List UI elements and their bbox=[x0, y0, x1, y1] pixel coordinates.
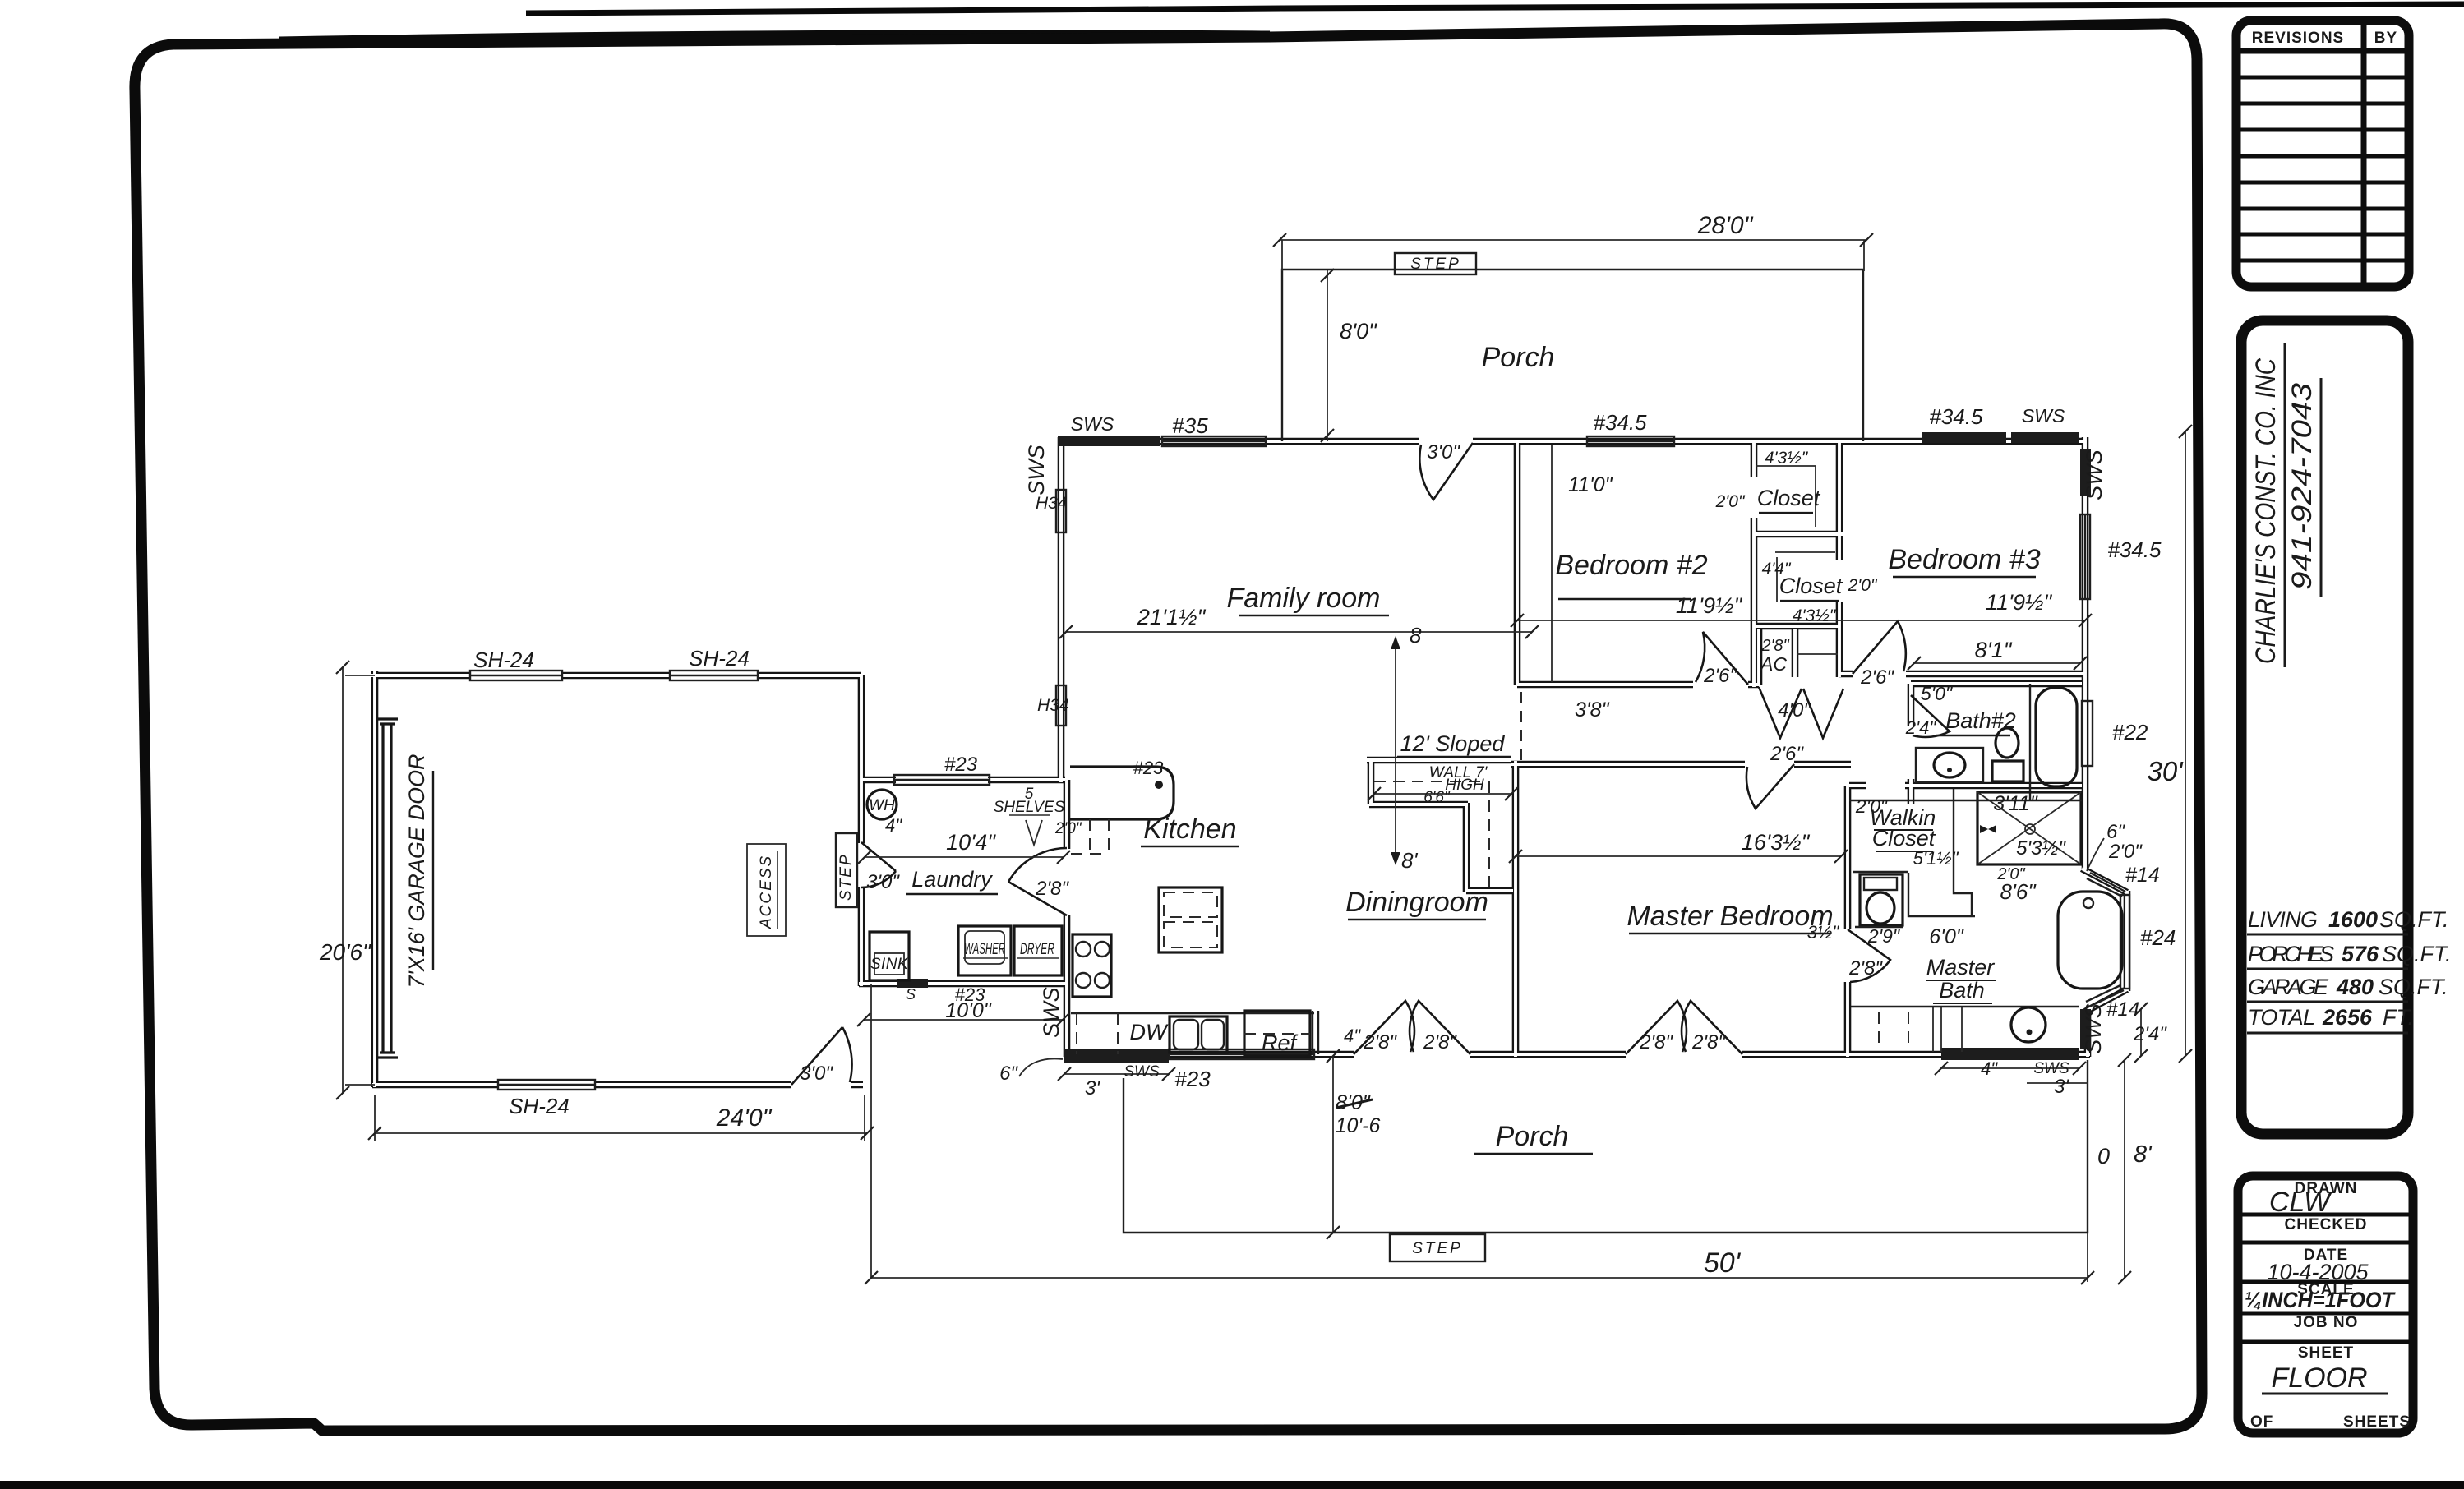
company title block bbox=[2241, 320, 2452, 1134]
svg-text:JOB NO: JOB NO bbox=[2294, 1314, 2359, 1331]
svg-text:Bedroom #2: Bedroom #2 bbox=[1555, 550, 1707, 581]
drawn / sheet block bbox=[2238, 1176, 2413, 1433]
svg-text:6'6": 6'6" bbox=[1423, 789, 1451, 806]
garage access panel box bbox=[747, 844, 786, 936]
svg-text:2'4": 2'4" bbox=[2133, 1023, 2167, 1045]
kitchen upper counter bbox=[1070, 767, 1174, 819]
svg-text:STEP: STEP bbox=[837, 853, 855, 901]
svg-text:11'9½": 11'9½" bbox=[1986, 590, 2053, 615]
door bedroom2 2'6 bbox=[1696, 632, 1748, 685]
svg-text:Diningroom: Diningroom bbox=[1345, 887, 1488, 918]
svg-text:#14: #14 bbox=[2106, 998, 2139, 1021]
svg-text:SHELVES: SHELVES bbox=[994, 799, 1065, 816]
walkin closet interior walls bbox=[1853, 789, 1975, 916]
svg-text:0: 0 bbox=[2097, 1144, 2110, 1169]
svg-text:SWS: SWS bbox=[2022, 405, 2065, 426]
svg-text:SQ.FT.: SQ.FT. bbox=[2379, 907, 2449, 932]
svg-text:#14: #14 bbox=[2125, 864, 2160, 887]
svg-text:Master: Master bbox=[1926, 955, 1996, 980]
svg-text:CHECKED: CHECKED bbox=[2285, 1216, 2368, 1233]
svg-text:4": 4" bbox=[1981, 1058, 1998, 1079]
washer box bbox=[958, 926, 1011, 975]
water heater bbox=[867, 790, 897, 819]
svg-text:#23: #23 bbox=[1133, 758, 1164, 778]
svg-text:2'8": 2'8" bbox=[1848, 957, 1883, 980]
svg-text:SH-24: SH-24 bbox=[509, 1094, 570, 1118]
door garage rear 3'0 bbox=[791, 1027, 852, 1085]
svg-text:2'0": 2'0" bbox=[1054, 820, 1082, 837]
window kitchen south SWS #23 bbox=[1169, 1049, 1314, 1059]
svg-text:Bath#2: Bath#2 bbox=[1945, 708, 2016, 733]
page bottom scan edge bbox=[0, 1481, 2464, 1489]
svg-text:2'8": 2'8" bbox=[1760, 637, 1789, 655]
svg-text:Master Bedroom: Master Bedroom bbox=[1627, 901, 1833, 932]
svg-text:Bath: Bath bbox=[1939, 978, 1985, 1003]
svg-text:5'0": 5'0" bbox=[1921, 683, 1954, 704]
svg-text:10'4": 10'4" bbox=[946, 830, 996, 855]
svg-text:SHEET: SHEET bbox=[2298, 1344, 2354, 1362]
AC bifold doors 4'0 bbox=[1759, 687, 1843, 738]
door bath2 2'4 bbox=[1911, 695, 1950, 737]
kitchen cooktop bbox=[1073, 934, 1111, 997]
svg-text:#34.5: #34.5 bbox=[1929, 404, 1983, 429]
svg-text:2'8": 2'8" bbox=[1691, 1031, 1726, 1053]
svg-text:2'0": 2'0" bbox=[2108, 841, 2143, 863]
svg-text:2'6": 2'6" bbox=[1703, 665, 1737, 687]
svg-text:8'6": 8'6" bbox=[2000, 879, 2037, 904]
svg-text:2'9": 2'9" bbox=[1867, 925, 1901, 947]
window bath2 east #22 bbox=[2082, 701, 2093, 766]
bath2 tub bbox=[2036, 688, 2077, 786]
svg-text:30': 30' bbox=[2147, 756, 2184, 786]
svg-text:20'6": 20'6" bbox=[319, 939, 371, 965]
svg-text:4": 4" bbox=[1344, 1026, 1361, 1046]
svg-text:1600: 1600 bbox=[2328, 907, 2378, 932]
french doors dining porch 2'8+2'8 bbox=[1354, 1001, 1470, 1054]
svg-text:SQ.FT.: SQ.FT. bbox=[2379, 975, 2448, 999]
master garden tub bbox=[2058, 892, 2122, 989]
svg-text:PORCHES: PORCHES bbox=[2248, 942, 2334, 966]
svg-text:480: 480 bbox=[2336, 975, 2374, 999]
svg-text:#34.5: #34.5 bbox=[1593, 410, 1647, 435]
door family to porch 3'0 bbox=[1419, 443, 1473, 500]
svg-text:3'8": 3'8" bbox=[1575, 698, 1610, 721]
page top scan edge bbox=[526, 4, 2464, 13]
svg-text:2656: 2656 bbox=[2322, 1005, 2373, 1030]
dashed hall line bbox=[1520, 692, 1522, 763]
svg-text:SWS: SWS bbox=[2082, 449, 2106, 500]
svg-text:2'0": 2'0" bbox=[1848, 576, 1878, 595]
svg-text:SWS: SWS bbox=[1124, 1063, 1160, 1081]
svg-text:SH-24: SH-24 bbox=[473, 648, 534, 672]
outer drawing frame bbox=[135, 24, 2202, 1431]
svg-text:2'8": 2'8" bbox=[1035, 878, 1069, 900]
svg-text:Bedroom #3: Bedroom #3 bbox=[1888, 544, 2040, 575]
svg-text:SHEETS: SHEETS bbox=[2343, 1413, 2411, 1431]
svg-text:Porch: Porch bbox=[1496, 1121, 1569, 1152]
svg-text:H34: H34 bbox=[1036, 494, 1068, 513]
svg-text:6": 6" bbox=[999, 1063, 1018, 1085]
windows: garage north SH-24 x2 bbox=[470, 436, 2129, 1090]
svg-text:8'0": 8'0" bbox=[1340, 319, 1377, 343]
door master bedroom 2'6 bbox=[1746, 764, 1794, 809]
svg-text:3'0": 3'0" bbox=[800, 1063, 833, 1085]
svg-text:3': 3' bbox=[2054, 1076, 2069, 1098]
svg-text:CHARLIE'S CONST. CO. INC: CHARLIE'S CONST. CO. INC bbox=[2250, 358, 2282, 664]
svg-text:3': 3' bbox=[1085, 1077, 1100, 1099]
svg-text:SWS: SWS bbox=[2033, 1060, 2069, 1077]
window family north #35 bbox=[1162, 436, 1266, 446]
window bedroom2 north #34.5 bbox=[1587, 436, 1674, 446]
svg-text:576: 576 bbox=[2342, 942, 2379, 966]
bath2 toilet bbox=[1996, 728, 2019, 758]
svg-text:SWS: SWS bbox=[1024, 445, 1049, 496]
room labels bbox=[906, 342, 2041, 1154]
svg-text:21'1½": 21'1½" bbox=[1137, 605, 1207, 629]
kitchen island bbox=[1159, 887, 1222, 952]
bottom porch outline bbox=[1124, 1060, 2088, 1233]
svg-text:8: 8 bbox=[1410, 623, 1422, 648]
svg-text:SWS: SWS bbox=[1039, 987, 1064, 1038]
svg-text:6": 6" bbox=[2106, 821, 2125, 843]
dashed peninsula 7ft wall bbox=[1374, 781, 1489, 889]
svg-text:WH: WH bbox=[869, 797, 895, 814]
door laundry east 2'8 bbox=[1008, 848, 1067, 915]
door bedroom3 2'6 bbox=[1853, 621, 1906, 674]
svg-text:HIGH: HIGH bbox=[1445, 777, 1484, 794]
svg-text:12' Sloped: 12' Sloped bbox=[1400, 731, 1506, 756]
svg-text:11'0": 11'0" bbox=[1568, 473, 1613, 496]
svg-text:S: S bbox=[906, 986, 916, 1003]
top porch outline bbox=[1282, 270, 1863, 441]
8'0 strikethrough bbox=[1336, 1099, 1373, 1108]
svg-text:2'0": 2'0" bbox=[1715, 492, 1746, 511]
master toilet nook bbox=[1860, 874, 1903, 925]
bottom porch step box bbox=[1390, 1234, 1485, 1261]
svg-text:SQ.FT.: SQ.FT. bbox=[2382, 942, 2452, 966]
revisions table bbox=[2236, 21, 2409, 287]
window garage south SH-24 bbox=[498, 1080, 595, 1090]
svg-text:SWS: SWS bbox=[1071, 413, 1114, 435]
AC shelf line bbox=[1797, 653, 1838, 655]
svg-text:TOTAL: TOTAL bbox=[2248, 1005, 2315, 1030]
dimension tick slashes bbox=[336, 233, 2192, 1284]
svg-text:Kitchen: Kitchen bbox=[1143, 814, 1236, 845]
garage door (7x16) inner leaf bbox=[376, 719, 398, 1058]
svg-text:#23: #23 bbox=[955, 984, 985, 1005]
svg-text:ACCESS: ACCESS bbox=[758, 855, 775, 929]
bath2 vanity bbox=[1916, 748, 1983, 782]
svg-text:3'0": 3'0" bbox=[1427, 441, 1460, 463]
door laundry west 3'0 bbox=[861, 842, 896, 887]
svg-text:#22: #22 bbox=[2112, 720, 2148, 744]
dimension / annotation text bbox=[319, 212, 2184, 1279]
svg-text:24'0": 24'0" bbox=[716, 1104, 773, 1132]
svg-text:STEP: STEP bbox=[1412, 1240, 1463, 1257]
svg-text:3'0": 3'0" bbox=[866, 871, 900, 893]
windows bay diagonals #14 bbox=[2090, 873, 2125, 892]
svg-text:4'3½": 4'3½" bbox=[1793, 606, 1837, 625]
svg-text:2'6": 2'6" bbox=[1770, 743, 1804, 765]
window laundry north #23 bbox=[894, 775, 990, 785]
french doors master porch 2'8+2'8 bbox=[1626, 1001, 1742, 1054]
kitchen sink double basin bbox=[1170, 1016, 1227, 1053]
svg-text:4'3½": 4'3½" bbox=[1765, 449, 1809, 468]
svg-text:16'3½": 16'3½" bbox=[1742, 830, 1811, 855]
svg-text:Porch: Porch bbox=[1482, 342, 1555, 373]
svg-text:FT.: FT. bbox=[2383, 1005, 2414, 1030]
top porch step box bbox=[1395, 253, 1476, 274]
svg-text:4": 4" bbox=[885, 815, 902, 836]
svg-text:SH-24: SH-24 bbox=[689, 646, 750, 671]
svg-text:SINK: SINK bbox=[870, 956, 909, 973]
svg-text:OF: OF bbox=[2250, 1413, 2273, 1431]
svg-text:Laundry: Laundry bbox=[911, 867, 993, 892]
svg-text:Family room: Family room bbox=[1226, 583, 1380, 614]
hatched wall segments (dark) bbox=[897, 432, 2091, 1063]
closet2 shelf lines bbox=[1775, 552, 1835, 602]
svg-text:2'8": 2'8" bbox=[1423, 1031, 1457, 1053]
outer drawing frame retrace stroke bbox=[279, 34, 1270, 40]
svg-text:8'1": 8'1" bbox=[1975, 638, 2013, 662]
svg-text:10'-6: 10'-6 bbox=[1336, 1114, 1381, 1137]
svg-text:8': 8' bbox=[2134, 1141, 2153, 1168]
svg-text:LIVING: LIVING bbox=[2248, 907, 2318, 932]
svg-text:#34.5: #34.5 bbox=[2107, 537, 2162, 562]
bedroom2 11ft line bbox=[1551, 445, 1553, 682]
shower box bbox=[1977, 792, 2081, 864]
window east #34.5 bbox=[2080, 514, 2090, 599]
svg-text:2'6": 2'6" bbox=[1860, 666, 1894, 689]
svg-text:Ref: Ref bbox=[1262, 1030, 1299, 1055]
dimension lines bbox=[343, 240, 2185, 1282]
svg-text:FLOOR: FLOOR bbox=[2271, 1362, 2367, 1394]
closet1 shelf lines bbox=[1756, 466, 1816, 527]
windows family west H34 x2 bbox=[1056, 490, 1066, 532]
svg-text:Closet: Closet bbox=[1872, 826, 1936, 851]
double-line walls bbox=[371, 437, 2127, 1087]
refrigerator bbox=[1244, 1011, 1310, 1056]
svg-text:#23: #23 bbox=[1174, 1067, 1211, 1091]
svg-text:WASHER: WASHER bbox=[964, 941, 1005, 958]
svg-text:#35: #35 bbox=[1172, 413, 1208, 438]
svg-text:BY: BY bbox=[2374, 30, 2397, 47]
dryer box bbox=[1014, 926, 1062, 975]
door master bath 2'8 bbox=[1848, 929, 1890, 982]
bath2 divider wall bbox=[2029, 684, 2031, 800]
svg-text:11'9½": 11'9½" bbox=[1676, 593, 1743, 618]
svg-text:2'4": 2'4" bbox=[1905, 717, 1937, 738]
svg-text:REVISIONS: REVISIONS bbox=[2252, 30, 2344, 47]
svg-text:Closet: Closet bbox=[1757, 486, 1821, 510]
svg-text:6'0": 6'0" bbox=[1929, 925, 1964, 948]
window bay #24 bbox=[2120, 895, 2129, 989]
master vanity counter bbox=[1851, 1006, 2079, 1007]
svg-text:#23: #23 bbox=[944, 754, 978, 776]
svg-text:3'11": 3'11" bbox=[1993, 792, 2038, 815]
svg-text:4'4": 4'4" bbox=[1762, 560, 1792, 579]
svg-text:GARAGE: GARAGE bbox=[2248, 975, 2329, 999]
svg-text:SWS: SWS bbox=[2081, 1003, 2106, 1054]
laundry sink bbox=[870, 932, 909, 980]
svg-text:H34: H34 bbox=[1037, 696, 1069, 715]
garage step box bbox=[836, 833, 857, 907]
svg-text:DRYER: DRYER bbox=[1020, 941, 1054, 958]
svg-text:5'3½": 5'3½" bbox=[2016, 837, 2066, 860]
svg-text:2'8": 2'8" bbox=[1363, 1031, 1397, 1053]
svg-text:AC: AC bbox=[1759, 653, 1787, 675]
svg-text:5'1½": 5'1½" bbox=[1913, 848, 1959, 869]
dining 8ft arrow bbox=[1395, 643, 1396, 859]
svg-text:STEP: STEP bbox=[1410, 256, 1461, 273]
svg-text:2'8": 2'8" bbox=[1639, 1031, 1673, 1053]
svg-text:941-924-7043: 941-924-7043 bbox=[2286, 383, 2318, 590]
svg-text:3½": 3½" bbox=[1807, 922, 1840, 943]
svg-text:#24: #24 bbox=[2140, 925, 2176, 950]
svg-text:2'0": 2'0" bbox=[1855, 795, 1889, 817]
svg-text:DW: DW bbox=[1130, 1020, 1169, 1044]
svg-text:50': 50' bbox=[1704, 1247, 1742, 1279]
kitchen south counter line bbox=[1071, 1012, 1314, 1014]
svg-text:28'0": 28'0" bbox=[1697, 212, 1754, 239]
svg-text:¼INCH=1FOOT: ¼INCH=1FOOT bbox=[2245, 1288, 2396, 1312]
svg-text:4'0": 4'0" bbox=[1778, 699, 1811, 721]
svg-text:8': 8' bbox=[1401, 848, 1418, 873]
svg-text:7'X16' GARAGE DOOR: 7'X16' GARAGE DOOR bbox=[404, 754, 429, 989]
